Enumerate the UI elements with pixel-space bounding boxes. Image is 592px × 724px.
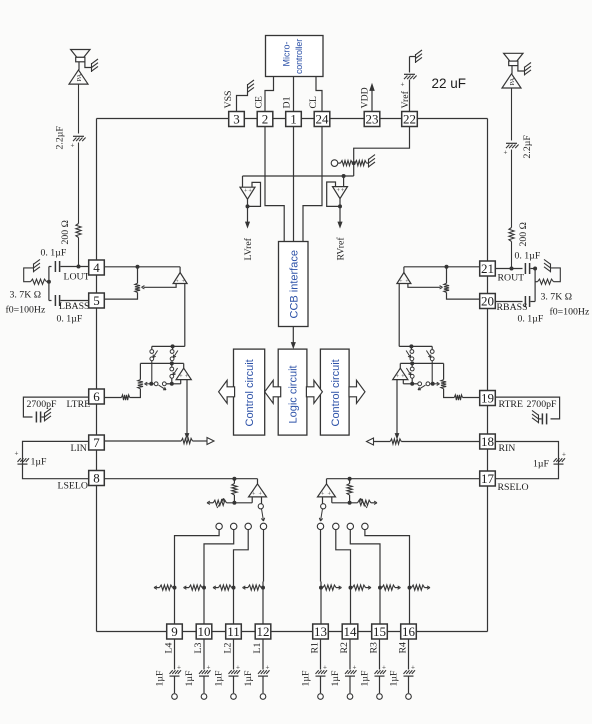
svg-text:200 Ω: 200 Ω <box>518 222 529 246</box>
svg-text:0. 1µF: 0. 1µF <box>515 251 541 262</box>
svg-text:LVref: LVref <box>243 237 254 260</box>
svg-text:1: 1 <box>290 112 297 127</box>
svg-text:RBASS: RBASS <box>497 302 528 313</box>
svg-text:4: 4 <box>93 260 100 275</box>
svg-text:15: 15 <box>373 624 386 639</box>
svg-text:3. 7K Ω: 3. 7K Ω <box>541 292 573 303</box>
svg-text:R3: R3 <box>369 642 380 654</box>
svg-text:+: + <box>401 374 405 380</box>
svg-text:+: + <box>182 278 185 284</box>
svg-text:RIN: RIN <box>499 443 516 454</box>
svg-text:0. 1µF: 0. 1µF <box>41 248 67 259</box>
svg-text:3: 3 <box>233 112 240 127</box>
svg-text:+: + <box>177 664 181 672</box>
svg-text:+: + <box>353 664 357 672</box>
svg-text:8: 8 <box>93 471 100 486</box>
svg-text:CL: CL <box>308 96 319 109</box>
svg-text:LIN: LIN <box>71 443 87 454</box>
svg-text:LBASS: LBASS <box>59 301 90 312</box>
svg-text:18: 18 <box>481 434 494 449</box>
svg-text:0. 1µF: 0. 1µF <box>57 314 83 325</box>
svg-text:21: 21 <box>481 261 494 276</box>
svg-text:24: 24 <box>316 112 330 127</box>
svg-text:1µF: 1µF <box>155 670 166 687</box>
svg-text:LTRE: LTRE <box>67 399 91 410</box>
svg-text:CE: CE <box>254 96 265 109</box>
svg-text:+: + <box>411 664 415 672</box>
svg-text:2700pF: 2700pF <box>27 399 57 410</box>
svg-text:1µF: 1µF <box>214 670 225 687</box>
svg-text:Vref: Vref <box>400 90 411 108</box>
svg-text:22: 22 <box>403 112 416 127</box>
svg-text:0. 1µF: 0. 1µF <box>518 314 544 325</box>
svg-text:5: 5 <box>93 293 100 308</box>
svg-text:6: 6 <box>93 389 100 404</box>
svg-text:+: + <box>266 664 270 672</box>
svg-text:+: + <box>336 187 340 194</box>
svg-text:1µF: 1µF <box>389 670 400 687</box>
svg-text:LOUT: LOUT <box>64 272 90 283</box>
svg-text:7: 7 <box>93 435 100 450</box>
svg-text:9: 9 <box>171 624 178 639</box>
svg-text:11: 11 <box>227 624 240 639</box>
svg-text:+: + <box>399 278 402 284</box>
svg-text:+: + <box>504 149 508 157</box>
svg-text:f0=100Hz: f0=100Hz <box>6 305 46 316</box>
svg-text:1µF: 1µF <box>360 670 371 687</box>
svg-text:10: 10 <box>198 624 211 639</box>
svg-text:Control circuit: Control circuit <box>330 359 342 426</box>
svg-text:L2: L2 <box>223 643 234 654</box>
svg-text:20: 20 <box>481 294 494 309</box>
svg-text:R2: R2 <box>339 642 350 654</box>
svg-text:Logic circuit: Logic circuit <box>288 365 300 423</box>
svg-text:+: + <box>176 278 179 284</box>
svg-text:PA: PA <box>509 77 516 85</box>
svg-text:2.2µF: 2.2µF <box>55 126 66 150</box>
svg-text:19: 19 <box>481 391 494 406</box>
svg-text:+: + <box>562 451 566 459</box>
svg-text:+: + <box>341 187 345 194</box>
svg-text:+: + <box>244 188 248 195</box>
svg-text:RVref: RVref <box>336 237 347 261</box>
svg-text:+: + <box>405 278 408 284</box>
svg-text:1µF: 1µF <box>31 457 48 468</box>
svg-text:f0=100Hz: f0=100Hz <box>550 307 590 318</box>
svg-text:PA: PA <box>76 73 83 81</box>
svg-text:RTRE: RTRE <box>499 399 523 410</box>
svg-text:L3: L3 <box>193 643 204 654</box>
svg-text:L4: L4 <box>164 643 175 654</box>
svg-text:R4: R4 <box>398 642 409 654</box>
svg-text:D1: D1 <box>282 96 293 108</box>
svg-text:RSELO: RSELO <box>498 482 529 493</box>
svg-text:+: + <box>396 374 400 380</box>
svg-text:VSS: VSS <box>223 91 234 109</box>
svg-text:1µF: 1µF <box>301 670 312 687</box>
svg-text:23: 23 <box>366 112 379 127</box>
svg-text:200 Ω: 200 Ω <box>60 220 71 244</box>
svg-text:13: 13 <box>314 624 327 639</box>
svg-text:2.2µF: 2.2µF <box>522 135 533 159</box>
svg-text:Control circuit: Control circuit <box>244 359 256 426</box>
svg-text:3. 7K Ω: 3. 7K Ω <box>10 290 42 301</box>
svg-text:+: + <box>15 450 19 458</box>
svg-text:+: + <box>236 664 240 672</box>
svg-text:2700pF: 2700pF <box>527 399 557 410</box>
svg-text:+: + <box>71 142 75 150</box>
svg-text:1µF: 1µF <box>184 670 195 687</box>
svg-text:+: + <box>323 664 327 672</box>
svg-text:1µF: 1µF <box>243 670 254 687</box>
svg-text:LSELO: LSELO <box>58 481 88 492</box>
svg-text:R1: R1 <box>310 642 321 654</box>
svg-text:+: + <box>382 664 386 672</box>
svg-text:L1: L1 <box>252 643 263 654</box>
svg-text:+: + <box>248 188 252 195</box>
svg-text:1µF: 1µF <box>533 459 550 470</box>
svg-text:+: + <box>207 664 211 672</box>
svg-text:16: 16 <box>402 624 416 639</box>
svg-text:12: 12 <box>257 624 270 639</box>
svg-text:1µF: 1µF <box>330 670 341 687</box>
svg-text:17: 17 <box>481 471 495 486</box>
svg-text:22 uF: 22 uF <box>432 76 467 91</box>
svg-text:CCB interface: CCB interface <box>289 250 301 318</box>
svg-text:VDD: VDD <box>360 87 371 108</box>
svg-text:ROUT: ROUT <box>498 273 525 284</box>
svg-text:+: + <box>401 81 405 89</box>
svg-text:Micro-: Micro- <box>282 42 292 67</box>
svg-text:controller: controller <box>294 39 304 74</box>
svg-text:2: 2 <box>262 112 269 127</box>
svg-text:14: 14 <box>344 624 358 639</box>
